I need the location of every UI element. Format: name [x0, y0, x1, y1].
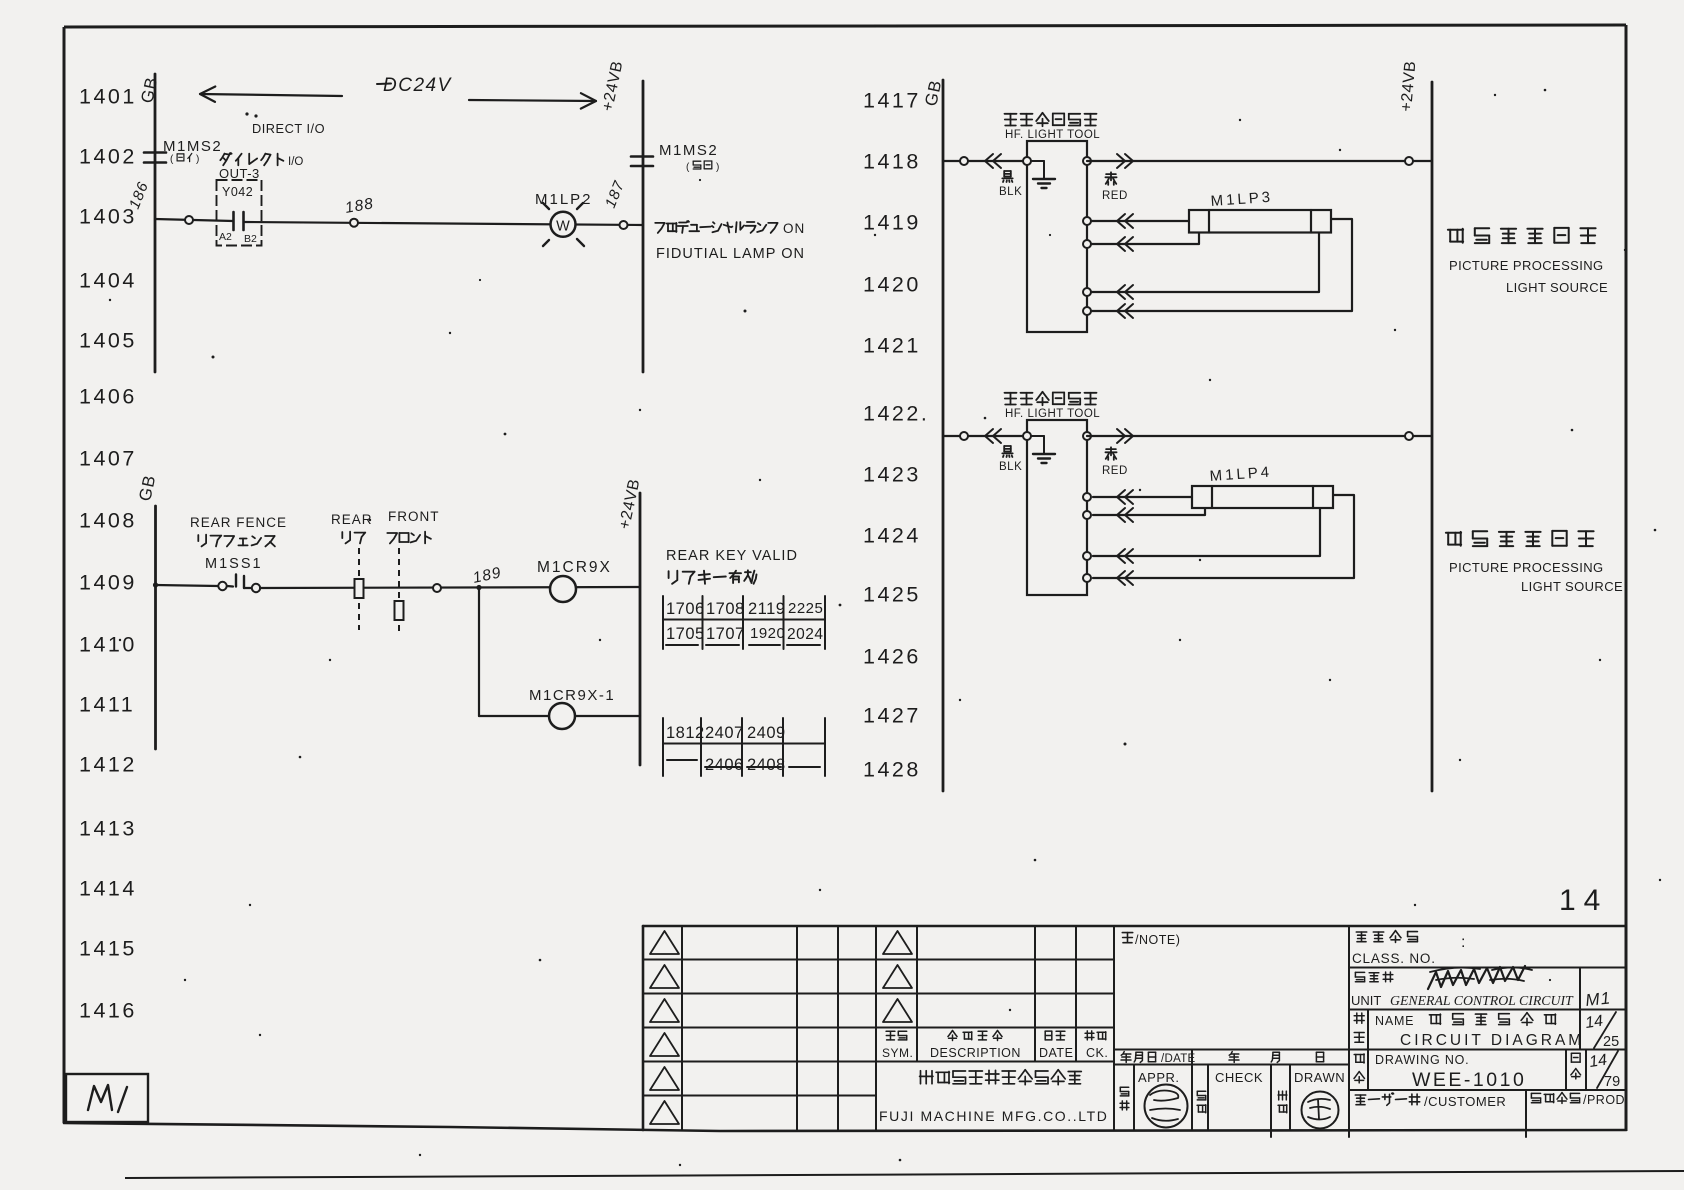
wire lamp lead 3 M1LP4: [1093, 509, 1320, 556]
svg-text:REAR KEY VALID: REAR KEY VALID: [666, 548, 798, 564]
svg-text:LIGHT SOURCE: LIGHT SOURCE: [1521, 579, 1623, 594]
svg-text:M1MS2: M1MS2: [659, 142, 718, 159]
drawing no row: [1367, 1050, 1369, 1091]
title block outer: [643, 925, 1626, 928]
svg-text:1420: 1420: [863, 273, 921, 297]
date row: [1114, 1064, 1349, 1066]
svg-text:1414: 1414: [79, 877, 137, 901]
svg-text:M1CR9X-1: M1CR9X-1: [529, 687, 615, 704]
rung 1409 wire to right rail: [260, 587, 640, 588]
unit row: [1355, 972, 1392, 982]
svg-text:I/O: I/O: [288, 156, 303, 168]
svg-text:1412: 1412: [79, 753, 137, 777]
svg-text:BLK: BLK: [999, 186, 1022, 198]
svg-text:DIRECT I/O: DIRECT I/O: [252, 121, 325, 136]
ground symbol inside HF unit: [1031, 435, 1044, 437]
svg-text:): ): [196, 154, 199, 165]
svg-text:FRONT: FRONT: [388, 509, 440, 524]
lamp tube M1LP4: [1192, 486, 1333, 508]
svg-text:CIRCUIT DIAGRAM: CIRCUIT DIAGRAM: [1400, 1032, 1584, 1049]
svg-text:1419: 1419: [863, 211, 921, 235]
svg-text::: :: [1461, 934, 1465, 951]
revision header DATE: [1045, 1031, 1065, 1040]
svg-text:DRAWN: DRAWN: [1294, 1070, 1345, 1085]
label PICTURE PROCESSING LIGHT SOURCE lower: [1446, 531, 1594, 546]
svg-text:Y042: Y042: [222, 185, 253, 199]
svg-text:DATE: DATE: [1039, 1046, 1073, 1060]
svg-text:25: 25: [1603, 1034, 1619, 1050]
name row: [1367, 1010, 1369, 1050]
svg-text:CLASS. NO.: CLASS. NO.: [1352, 951, 1436, 966]
terminal circle 186 node: [185, 216, 193, 224]
wire lamp lead 1 M1LP4: [1093, 496, 1192, 498]
label BLK black wire: [1002, 171, 1012, 182]
contact M1MS2 page-link left (capacitor-style marker): [144, 151, 166, 154]
svg-text:2409: 2409: [747, 724, 786, 742]
vertical label drawn: [1278, 1091, 1287, 1100]
branch rung wire M1CR9X-1: [479, 715, 549, 717]
svg-text:/DATE: /DATE: [1161, 1053, 1196, 1065]
approval row cells: [1133, 1065, 1135, 1131]
svg-text:1415: 1415: [79, 937, 137, 961]
svg-text:W: W: [556, 219, 570, 235]
HF light tool unit box: [1027, 420, 1087, 595]
svg-text:REAR: REAR: [331, 512, 373, 527]
label fiducial lamp ON katakana: [655, 221, 777, 233]
svg-text:1409: 1409: [79, 571, 137, 595]
svg-text:/PROD.: /PROD.: [1583, 1093, 1629, 1107]
svg-text:A2: A2: [219, 231, 232, 243]
wire lamp lead 4 M1LP4: [1093, 495, 1354, 578]
stamp APPR: [1145, 1085, 1188, 1128]
svg-text:1425: 1425: [863, 583, 921, 607]
svg-text:1424: 1424: [863, 524, 921, 548]
svg-text:1423: 1423: [863, 463, 921, 487]
svg-text:CHECK: CHECK: [1215, 1070, 1263, 1085]
revision table horizontals: [643, 959, 876, 961]
cross reference table 1812/2407/2409: [662, 718, 664, 776]
svg-text:APPR.: APPR.: [1138, 1070, 1180, 1085]
info table right section: [1348, 926, 1350, 1130]
svg-text:2119: 2119: [748, 600, 785, 618]
svg-text:B2: B2: [244, 233, 257, 245]
svg-text:1427: 1427: [863, 704, 921, 728]
svg-text:14: 14: [1559, 884, 1608, 917]
wire lamp lead 4 M1LP3: [1091, 219, 1352, 311]
wire arrow left DC24V: [200, 94, 342, 96]
terminal circles: [1023, 432, 1031, 440]
svg-text:1416: 1416: [79, 999, 137, 1023]
svg-text:WEE-1010: WEE-1010: [1412, 1069, 1526, 1091]
svg-text:1407: 1407: [79, 447, 137, 471]
wire lamp lead 1 M1LP3: [1091, 220, 1189, 222]
sheet id box M1: [66, 1074, 148, 1122]
svg-text:M1: M1: [1584, 988, 1611, 1010]
node +24VB right bus rail section 2: [639, 493, 642, 765]
ground symbol inside HF unit: [1031, 160, 1044, 162]
svg-text:RED: RED: [1102, 465, 1128, 477]
wire rung to +24VB rail: [1087, 160, 1432, 162]
svg-text:SYM.: SYM.: [882, 1046, 913, 1060]
class no row: [1356, 931, 1417, 943]
svg-text:1707: 1707: [706, 625, 745, 643]
svg-text:1417: 1417: [863, 89, 921, 113]
revision header CK: [1085, 1031, 1106, 1040]
svg-text:1418: 1418: [863, 150, 921, 174]
svg-text:2408: 2408: [747, 756, 786, 774]
svg-text:1406: 1406: [79, 385, 137, 409]
svg-text:DRAWING NO.: DRAWING NO.: [1375, 1053, 1469, 1067]
svg-text:ON: ON: [783, 221, 805, 236]
label PICTURE PROCESSING LIGHT SOURCE upper: [1448, 228, 1596, 243]
svg-text:1708: 1708: [706, 600, 745, 618]
company name Fuji Machine: [920, 1070, 1082, 1085]
label HF LIGHT TOOL: [1005, 392, 1097, 405]
svg-text:UNIT: UNIT: [1351, 993, 1381, 1008]
bottom scan edge line: [125, 1171, 1684, 1178]
svg-text:1408: 1408: [79, 509, 137, 533]
svg-text:DESCRIPTION: DESCRIPTION: [930, 1046, 1021, 1060]
customer row: [1355, 1093, 1419, 1105]
wire rung from GB rail: [943, 435, 1027, 437]
revision header DESCRIPTION: [948, 1031, 1002, 1041]
relay contact box Y042: [217, 180, 262, 246]
svg-text:RED: RED: [1102, 190, 1128, 202]
wire lamp lead 2 M1LP3: [1091, 233, 1199, 244]
svg-text:/CUSTOMER: /CUSTOMER: [1424, 1094, 1506, 1109]
rung 1409 wire left segment: [153, 582, 158, 587]
svg-text:1404: 1404: [79, 269, 137, 293]
terminal circles: [1023, 157, 1031, 165]
svg-text:2406: 2406: [705, 756, 744, 774]
wire lamp lead 2 M1LP4: [1093, 509, 1205, 515]
svg-text:1405: 1405: [79, 329, 137, 353]
wire arrow right DC24V: [469, 100, 596, 101]
svg-text:REAR FENCE: REAR FENCE: [190, 515, 287, 530]
svg-text:FIDUTIAL LAMP ON: FIDUTIAL LAMP ON: [656, 246, 805, 262]
revision table verticals: [681, 926, 683, 1130]
svg-text:1401: 1401: [79, 85, 137, 109]
contact bars Y042: [232, 212, 235, 230]
svg-text:1410: 1410: [79, 633, 137, 657]
switch FRONT dashed: [398, 548, 400, 633]
svg-text:FUJI MACHINE MFG.CO..LTD: FUJI MACHINE MFG.CO..LTD: [879, 1108, 1108, 1124]
wire rung to +24VB rail: [1087, 435, 1432, 437]
HF light tool unit box: [1027, 141, 1087, 332]
label HF LIGHT TOOL: [1005, 113, 1097, 126]
vertical label check: [1197, 1091, 1205, 1100]
scan specks: [212, 356, 215, 359]
node GB middle bus rail: [942, 80, 945, 791]
wire lamp lead 3 M1LP3: [1091, 233, 1319, 292]
svg-text:1705: 1705: [666, 625, 705, 643]
svg-text:PICTURE PROCESSING: PICTURE PROCESSING: [1449, 560, 1604, 575]
junction branch node: [476, 585, 481, 590]
lamp tube M1LP3: [1189, 210, 1331, 233]
svg-text:/NOTE): /NOTE): [1135, 933, 1180, 947]
switch REAR dashed: [358, 548, 360, 630]
node +24VB right bus rail right half: [1431, 82, 1434, 791]
svg-text:): ): [716, 162, 719, 173]
label BLK black wire: [1002, 446, 1012, 457]
rung 1403 wire: [155, 219, 233, 221]
revision triangles right column: [883, 931, 912, 954]
svg-text:LIGHT SOURCE: LIGHT SOURCE: [1506, 280, 1608, 295]
svg-text:M1CR9X: M1CR9X: [537, 559, 612, 576]
svg-text:M1SS1: M1SS1: [205, 556, 263, 572]
svg-text:1920: 1920: [750, 625, 785, 642]
svg-text:2225: 2225: [788, 600, 823, 617]
label RED red wire: [1105, 447, 1116, 460]
svg-text:1706: 1706: [666, 600, 705, 618]
node GB left bus rail section 1: [154, 74, 157, 372]
svg-text:OUT-3: OUT-3: [219, 166, 260, 181]
cross reference table 1706/1708/2119/2225: [662, 596, 664, 649]
svg-text:1426: 1426: [863, 645, 921, 669]
svg-text:79: 79: [1604, 1074, 1620, 1090]
svg-text:14: 14: [1584, 1013, 1604, 1032]
svg-text:2407: 2407: [705, 724, 744, 742]
revision triangles left column: [650, 931, 679, 954]
svg-text:1403: 1403: [79, 205, 137, 229]
svg-text:M1MS2: M1MS2: [163, 138, 222, 155]
svg-text:1812: 1812: [666, 724, 705, 742]
svg-text:1413: 1413: [79, 817, 137, 841]
terminal circle 188 node: [350, 219, 358, 227]
node GB left bus rail section 2: [154, 506, 157, 749]
svg-text:GENERAL CONTROL CIRCUIT: GENERAL CONTROL CIRCUIT: [1390, 993, 1574, 1008]
note area: [1122, 933, 1132, 943]
svg-text:HF. LIGHT TOOL: HF. LIGHT TOOL: [1005, 408, 1100, 420]
key switch contact M1SS1: [218, 582, 226, 590]
svg-text:1428: 1428: [863, 758, 921, 782]
wire rung from GB rail: [943, 160, 1027, 162]
svg-text:CK.: CK.: [1086, 1046, 1108, 1060]
label RED red wire: [1105, 172, 1116, 185]
svg-text:1411: 1411: [79, 693, 135, 717]
stamp DRAWN: [1302, 1092, 1339, 1129]
vertical label approval: [1120, 1087, 1128, 1096]
svg-text:1402: 1402: [79, 145, 137, 169]
svg-text:HF. LIGHT TOOL: HF. LIGHT TOOL: [1005, 129, 1100, 141]
svg-text:1421: 1421: [863, 334, 921, 358]
terminal circle near right rail rung 1403: [620, 221, 628, 229]
svg-text:NAME: NAME: [1375, 1014, 1414, 1028]
label katakana direct I/O OUT-3: [220, 153, 283, 165]
svg-text:1422.: 1422.: [863, 402, 929, 426]
terminal circle on rung 1409: [433, 584, 441, 592]
svg-text:14: 14: [1588, 1052, 1608, 1071]
svg-text:2024: 2024: [787, 626, 823, 643]
svg-text:PICTURE PROCESSING: PICTURE PROCESSING: [1449, 258, 1604, 273]
svg-text:BLK: BLK: [999, 461, 1022, 473]
contact M1MS2 page-link right: [631, 155, 653, 158]
lamp M1LP2 (W): [551, 212, 576, 237]
page frame border: [64, 25, 1626, 27]
revision header SYM: [886, 1031, 907, 1040]
svg-text:DC24V: DC24V: [383, 75, 453, 96]
svg-text:M1LP2: M1LP2: [535, 191, 593, 208]
node +24VB right bus rail section 1: [642, 81, 645, 372]
